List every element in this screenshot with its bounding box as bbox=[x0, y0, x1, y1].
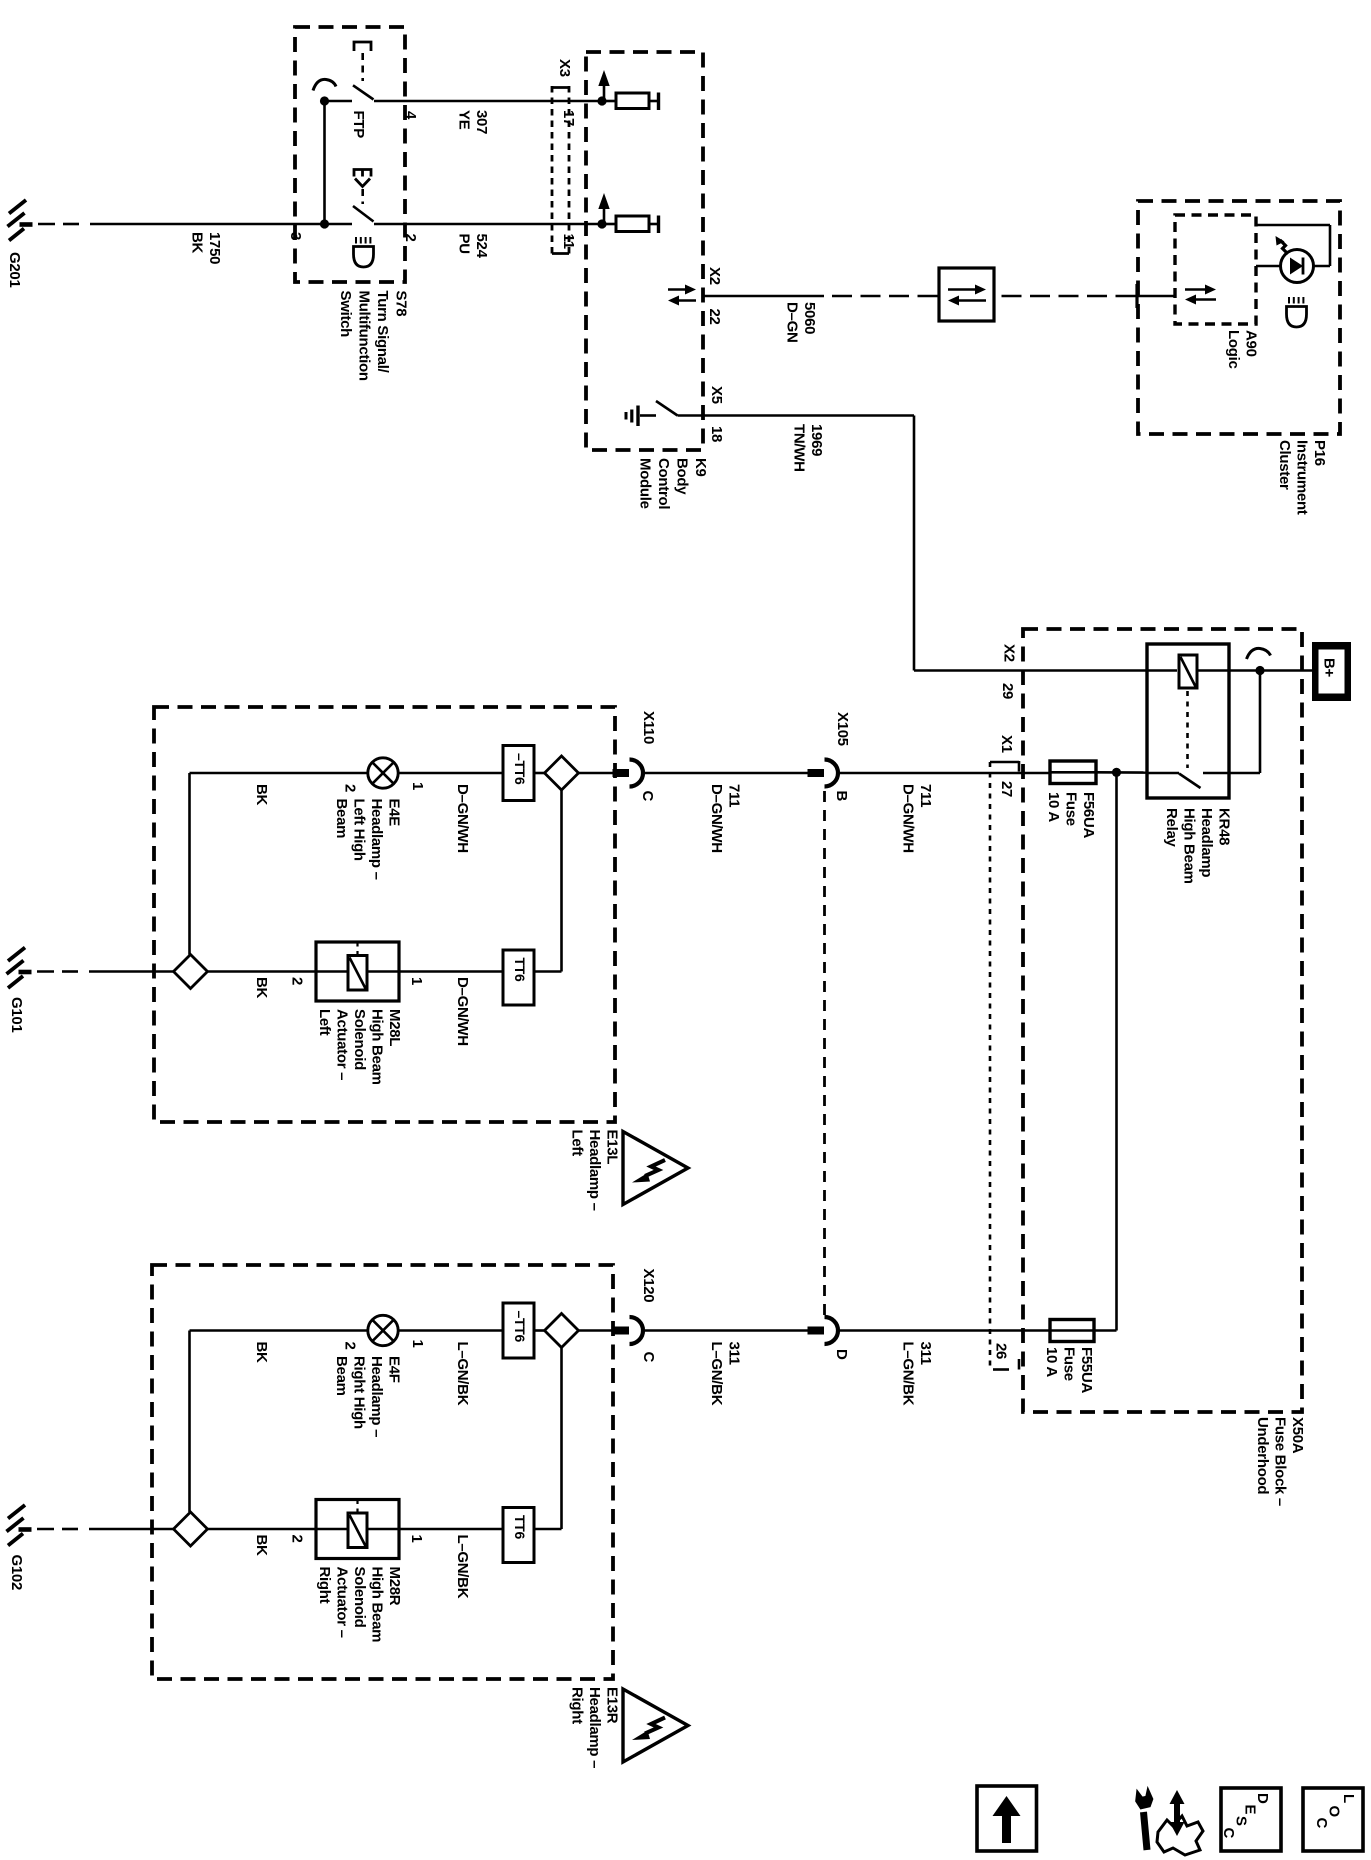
ground G101 bbox=[19, 970, 32, 975]
splice diamond (feed side) bbox=[545, 1314, 579, 1348]
svg-text:BK: BK bbox=[253, 1342, 270, 1364]
FTP switch (flash-to-pass) bbox=[313, 79, 336, 90]
wire bbox=[208, 1528, 317, 1531]
wire coil to B+ bbox=[1197, 669, 1312, 672]
wire bbox=[1329, 225, 1332, 266]
svg-text:–TT6: –TT6 bbox=[512, 753, 528, 785]
wire bbox=[1256, 224, 1330, 227]
wire bbox=[534, 1329, 545, 1332]
svg-text:BK: BK bbox=[253, 977, 270, 999]
connector arrows bbox=[948, 288, 977, 291]
wire 311 X120 to X105 bbox=[643, 1329, 808, 1332]
bulb E4E bbox=[368, 758, 398, 788]
BCM input circuit pin X3-11 bbox=[603, 203, 606, 222]
wire 5060 D-GN bbox=[703, 295, 824, 298]
svg-text:G101: G101 bbox=[8, 997, 25, 1033]
splice diamond (ground side) bbox=[174, 1512, 208, 1546]
B+ terminal bbox=[1312, 642, 1351, 701]
svg-text:D: D bbox=[833, 1349, 850, 1360]
light emission arrow bbox=[1280, 240, 1288, 254]
svg-text:1: 1 bbox=[409, 1340, 426, 1348]
wire bbox=[913, 416, 916, 671]
lamp icon P16 bbox=[1288, 297, 1290, 304]
svg-text:27: 27 bbox=[998, 781, 1015, 797]
svg-text:X110: X110 bbox=[640, 711, 657, 744]
K9 Body Control Module box bbox=[586, 52, 703, 450]
svg-text:D–GN/WH: D–GN/WH bbox=[454, 784, 471, 853]
svg-text:B: B bbox=[833, 791, 850, 802]
svg-text:BK: BK bbox=[253, 1535, 270, 1557]
wire 307 YE : S78 pin 4 to BCM X3-17 bbox=[374, 100, 602, 103]
junction dot B+ feed bbox=[1255, 666, 1264, 675]
junction dot bbox=[597, 219, 606, 228]
S78 Turn Signal/Multifunction Switch box bbox=[295, 27, 405, 282]
svg-text:S: S bbox=[1233, 1816, 1250, 1826]
svg-text:G102: G102 bbox=[8, 1555, 25, 1591]
svg-text:FTP: FTP bbox=[350, 111, 367, 139]
connector X105 cavity B bbox=[808, 769, 825, 777]
wire 524 PU : S78 pin 2 to BCM X3-11 bbox=[374, 223, 602, 226]
svg-text:–TT6: –TT6 bbox=[512, 1311, 528, 1343]
svg-text:O: O bbox=[1326, 1806, 1343, 1818]
lamp icon S78 bbox=[355, 237, 357, 244]
A90 bidirectional arrows bbox=[1185, 288, 1207, 291]
svg-text:L–GN/BK: L–GN/BK bbox=[454, 1342, 471, 1406]
BCM bidirectional arrows bbox=[668, 288, 687, 291]
KR48 relay box bbox=[1147, 644, 1229, 798]
svg-text:TT6: TT6 bbox=[512, 1515, 528, 1540]
relay actuation link bbox=[1186, 691, 1189, 768]
svg-text:2: 2 bbox=[402, 234, 419, 242]
warning triangle E13L bbox=[623, 1132, 688, 1205]
LOC icon box bbox=[1303, 1788, 1363, 1851]
splice hook symbol bbox=[1247, 648, 1271, 659]
wire lamp return bbox=[188, 773, 191, 955]
svg-text:4: 4 bbox=[402, 111, 419, 120]
fuse F55UA 10A bbox=[1050, 1320, 1094, 1342]
connector X120 bbox=[613, 1327, 630, 1335]
junction dot bbox=[597, 96, 606, 105]
switch arm bbox=[656, 401, 678, 416]
wire 311 L-GN/BK fuse to X105 bbox=[837, 1329, 1050, 1332]
A90 Logic box bbox=[1175, 215, 1256, 324]
splice diamond (ground side) bbox=[174, 955, 208, 989]
E13L headlamp assembly box bbox=[154, 707, 615, 1122]
wire 711 D-GN/WH fuse to X105 bbox=[837, 772, 1050, 775]
wire bbox=[325, 100, 353, 103]
svg-text:2: 2 bbox=[289, 977, 306, 985]
svg-text:2: 2 bbox=[342, 1342, 359, 1350]
relay fixed contact right bbox=[1203, 772, 1260, 775]
ground G102 bbox=[19, 1527, 32, 1532]
svg-text:X1: X1 bbox=[998, 735, 1015, 753]
fuse F56UA 10A bbox=[1050, 761, 1096, 784]
ground G201 bbox=[20, 222, 33, 227]
E13R headlamp assembly box bbox=[152, 1265, 613, 1679]
junction dot bbox=[320, 96, 329, 105]
splice diamond (feed side) bbox=[545, 756, 579, 790]
svg-text:X105: X105 bbox=[834, 712, 851, 746]
bulb E4F bbox=[368, 1315, 398, 1345]
svg-text:1: 1 bbox=[408, 977, 425, 985]
terminal block TT6 bbox=[503, 950, 534, 1005]
wire 1969 TN/WH bbox=[678, 414, 915, 417]
wire bbox=[398, 1329, 503, 1332]
connector X105 body dashed bbox=[823, 791, 826, 1315]
svg-text:D: D bbox=[1254, 1793, 1271, 1804]
cluster pin tick bbox=[1135, 284, 1138, 308]
P16 Instrument Cluster box bbox=[1138, 201, 1340, 434]
svg-text:D–GN/WH: D–GN/WH bbox=[454, 977, 471, 1046]
svg-text:C: C bbox=[1313, 1818, 1330, 1829]
wire 1750 BK from G201 to S78 bbox=[38, 223, 55, 226]
terminal block -TT6 bbox=[503, 1303, 534, 1358]
svg-text:BK: BK bbox=[253, 784, 270, 806]
wire dashed to cluster bbox=[1002, 295, 1139, 298]
wire lamp return bbox=[188, 1331, 191, 1513]
wire bbox=[316, 1528, 348, 1531]
dimmer switch bbox=[354, 170, 371, 177]
svg-text:X2: X2 bbox=[1001, 644, 1018, 662]
wire 711 X110 to X105 bbox=[643, 772, 808, 775]
svg-text:29: 29 bbox=[999, 683, 1016, 699]
DESC icon box bbox=[1221, 1788, 1281, 1851]
svg-text:L–GN/BK: L–GN/BK bbox=[454, 1535, 471, 1599]
wire bbox=[367, 1528, 399, 1531]
svg-text:X5: X5 bbox=[708, 386, 725, 404]
junction dot fuse feed bbox=[1112, 768, 1121, 777]
warning triangle E13R bbox=[623, 1689, 688, 1762]
svg-text:17: 17 bbox=[560, 110, 577, 126]
svg-text:C: C bbox=[640, 1352, 657, 1363]
wire bbox=[399, 970, 503, 973]
terminal block -TT6 bbox=[503, 746, 534, 801]
relay switch arm bbox=[1179, 774, 1201, 789]
svg-text:3: 3 bbox=[287, 232, 304, 240]
junction dot bbox=[320, 219, 329, 228]
wire bbox=[208, 970, 317, 973]
wire bbox=[367, 970, 399, 973]
svg-text:X2: X2 bbox=[706, 267, 723, 285]
relay switch bbox=[1147, 772, 1179, 775]
svg-text:X3: X3 bbox=[556, 59, 573, 77]
svg-text:G201: G201 bbox=[6, 252, 23, 288]
svg-text:11: 11 bbox=[560, 234, 577, 249]
svg-text:1: 1 bbox=[409, 782, 426, 790]
svg-text:1: 1 bbox=[408, 1535, 425, 1543]
connector X105 cavity D bbox=[808, 1327, 825, 1335]
indicator lamp circuit bbox=[1256, 265, 1281, 268]
solenoid branch bbox=[560, 790, 563, 972]
repair info icon (wrench and arrows) bbox=[1144, 1812, 1148, 1850]
solenoid M28L bbox=[316, 942, 399, 1001]
svg-text:L: L bbox=[1340, 1794, 1357, 1803]
svg-text:TT6: TT6 bbox=[512, 958, 528, 983]
wire BK to ground bbox=[37, 970, 54, 973]
wire to F55UA bbox=[1115, 772, 1118, 1330]
wire 1969 into relay coil bbox=[914, 669, 1177, 672]
svg-text:B+: B+ bbox=[1321, 658, 1338, 678]
connector X3 strip bbox=[551, 86, 554, 255]
switch arm bbox=[353, 85, 374, 99]
svg-text:C: C bbox=[639, 791, 656, 802]
connector X1 strip bbox=[989, 762, 992, 1371]
solenoid branch bbox=[560, 1348, 563, 1530]
terminal block TT6 bbox=[503, 1508, 534, 1563]
wire bbox=[579, 1329, 614, 1332]
nav icon up-arrow box bbox=[977, 1786, 1037, 1851]
svg-text:26: 26 bbox=[993, 1343, 1010, 1359]
wire bbox=[316, 970, 348, 973]
svg-text:C: C bbox=[1220, 1828, 1237, 1839]
BCM ground switch driver bbox=[636, 406, 639, 427]
wire bbox=[1138, 295, 1175, 298]
X50A Fuse Block - Underhood box bbox=[1023, 629, 1302, 1412]
svg-text:E: E bbox=[1242, 1805, 1259, 1815]
wire bbox=[579, 772, 616, 775]
LED indicator bbox=[1281, 250, 1314, 283]
wire BK to ground bbox=[37, 1528, 54, 1531]
svg-text:2: 2 bbox=[342, 784, 359, 792]
connector X110 bbox=[613, 769, 630, 777]
BCM input circuit pin X3-17 bbox=[603, 80, 606, 99]
svg-text:18: 18 bbox=[708, 426, 725, 442]
relay coil bbox=[1179, 655, 1197, 688]
wire bbox=[1096, 771, 1147, 774]
switch arm bbox=[353, 206, 374, 222]
svg-text:2: 2 bbox=[289, 1535, 306, 1543]
wire bbox=[1314, 265, 1331, 268]
svg-text:X120: X120 bbox=[640, 1269, 657, 1303]
serial data pass-through connector bbox=[939, 268, 994, 321]
wire bbox=[534, 772, 545, 775]
wire B+ to relay contact bbox=[1259, 671, 1262, 774]
solenoid M28R bbox=[316, 1500, 399, 1559]
wire bbox=[398, 772, 503, 775]
wire bbox=[399, 1528, 503, 1531]
S78 internal feed wire bbox=[323, 101, 326, 224]
svg-text:22: 22 bbox=[706, 309, 723, 325]
